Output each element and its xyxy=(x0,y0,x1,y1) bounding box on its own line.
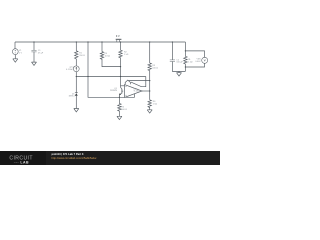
node dot R4/rail xyxy=(101,41,102,42)
diode D1 xyxy=(75,92,78,94)
wire R1 to gm1 xyxy=(75,59,77,66)
resistor R2 xyxy=(119,50,122,58)
node dot R1/rail xyxy=(76,41,77,42)
wire V1 top lead xyxy=(14,42,16,49)
ground below R5 xyxy=(117,116,122,119)
wire voltmeter bottom lead xyxy=(185,63,204,67)
svg-text:0.11 A/V: 0.11 A/V xyxy=(66,68,74,71)
svg-text:1N914: 1N914 xyxy=(68,96,75,98)
wire top rail xyxy=(15,41,185,43)
wire column mid (rail to bottom wire, to op-amp + input) xyxy=(88,42,134,97)
svg-text:-~- LAB: -~- LAB xyxy=(14,160,29,164)
node dot wireA/mid xyxy=(87,76,88,77)
node dot C2/rail xyxy=(172,41,173,42)
node dot R3/rail xyxy=(149,41,150,42)
node dot wireA/gm1-diode xyxy=(76,76,77,77)
resistor R6 xyxy=(148,100,151,108)
svg-text:1 kΩ: 1 kΩ xyxy=(153,104,158,106)
wire R4 bottom bend to Q1 column xyxy=(102,59,121,67)
wire V1 bottom lead xyxy=(14,55,16,59)
wire A bend down to diamond element xyxy=(131,77,146,87)
ground below R6 xyxy=(147,110,152,113)
wire diode branch top xyxy=(75,77,77,94)
wire C2 top lead xyxy=(171,42,173,60)
resistor R5 xyxy=(118,104,121,112)
svg-text:100 Ω: 100 Ω xyxy=(152,68,158,70)
svg-text:http://www.circuitlab.com/c/5a: http://www.circuitlab.com/c/5abb5a4w xyxy=(52,156,97,160)
footer logo block xyxy=(0,151,46,165)
wire op-amp output xyxy=(142,90,150,92)
svg-text:1 V: 1 V xyxy=(19,52,23,54)
wire R2 top lead xyxy=(120,42,122,50)
wire Q1 emitter lead xyxy=(118,95,120,97)
op-amp OA1 xyxy=(125,85,143,98)
wire C1 bottom lead xyxy=(33,52,35,62)
wire R1 top lead xyxy=(75,42,77,51)
node dot output xyxy=(149,90,150,91)
svg-text:0.00V: 0.00V xyxy=(195,61,201,63)
wire R5 top lead xyxy=(118,97,120,103)
node dot RL/meter xyxy=(185,66,186,67)
resistor R4 xyxy=(100,52,103,60)
wire R2 down through junctions to Q1 collector xyxy=(120,58,122,88)
wire Q1 collector node to op-amp inverting input xyxy=(121,85,125,87)
svg-text:47 µF: 47 µF xyxy=(38,52,44,54)
wire R5 bottom lead xyxy=(118,111,120,116)
current source gm1 xyxy=(73,66,79,72)
wire bottom right to C2 column xyxy=(172,62,185,72)
resistor R1 xyxy=(75,51,78,59)
node dot feedback/column xyxy=(149,80,150,81)
wire gm1 bottom lead xyxy=(75,72,77,77)
wire rail right bend down xyxy=(184,42,186,51)
transistor Q1 xyxy=(121,89,123,94)
ground below diode xyxy=(74,109,79,112)
supply flag V2 xyxy=(116,38,122,40)
resistor R3 xyxy=(148,63,151,71)
svg-text:100 Ω: 100 Ω xyxy=(121,109,127,111)
capacitor C2 xyxy=(170,60,175,62)
svg-text:1 kΩ: 1 kΩ xyxy=(124,54,129,56)
voltage source V1 xyxy=(12,49,18,55)
node dot wireA/Q1 xyxy=(120,76,121,77)
node dot emitter xyxy=(119,97,120,98)
capacitor C1 xyxy=(31,50,36,52)
svg-text:psb113 | 371 Lab 7 Part 3: psb113 | 371 Lab 7 Part 3 xyxy=(52,152,84,156)
wire feedback top xyxy=(129,80,150,82)
svg-text:10 kΩ: 10 kΩ xyxy=(105,55,111,57)
svg-text:2N3904: 2N3904 xyxy=(110,90,118,92)
ground on bottom right wire xyxy=(177,71,182,76)
svg-text:100 µF: 100 µF xyxy=(176,62,183,64)
footer bar xyxy=(0,151,220,165)
svg-text:200 Ω: 200 Ω xyxy=(79,55,85,57)
wire R6 bottom lead xyxy=(149,107,151,110)
node dot R4/R2 column xyxy=(120,66,121,67)
arrow flag above op-amp xyxy=(125,80,130,84)
wire C1 top lead xyxy=(33,42,35,50)
wire R4 top lead xyxy=(101,42,103,52)
labels xyxy=(19,35,202,111)
node dot R2/rail xyxy=(120,41,121,42)
svg-text:TL081: TL081 xyxy=(133,91,140,93)
wire diode bottom lead xyxy=(75,96,77,109)
svg-text:9 V: 9 V xyxy=(116,35,120,38)
node dot C1/rail xyxy=(33,41,34,42)
wire branch to voltmeter top xyxy=(185,51,204,58)
ground below V1 xyxy=(13,59,18,62)
node dot rail/RL xyxy=(185,50,186,51)
wire output column top (from rail) xyxy=(149,42,151,63)
wire output column xyxy=(149,70,151,99)
voltmeter VM1 xyxy=(202,57,208,63)
resistor RL xyxy=(184,51,187,72)
ground below C1 xyxy=(32,62,37,65)
node dot mid/rail xyxy=(87,41,88,42)
svg-text:1 kΩ: 1 kΩ xyxy=(188,61,193,63)
wire A (gm1 node horizontal) xyxy=(76,76,146,78)
junction dots xyxy=(33,41,186,98)
